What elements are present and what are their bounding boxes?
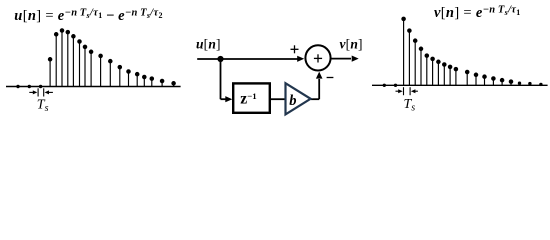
- svg-text:Ts: Ts: [37, 97, 49, 114]
- svg-text:Ts: Ts: [404, 97, 416, 114]
- svg-text:u[n] = e−n Ts/τ1 − e−n Ts/τ2: u[n] = e−n Ts/τ1 − e−n Ts/τ2: [14, 7, 163, 23]
- svg-text:v[n]: v[n]: [340, 36, 363, 51]
- svg-text:b: b: [289, 93, 296, 109]
- svg-text:v[n] = e−n Ts/τ1: v[n] = e−n Ts/τ1: [434, 5, 521, 21]
- svg-text:u[n]: u[n]: [196, 36, 221, 51]
